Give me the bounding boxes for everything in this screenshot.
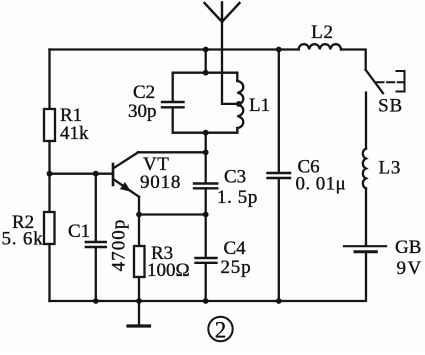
svg-text:L3: L3 [379, 158, 402, 179]
switch SB actuator bracket [397, 71, 405, 92]
svg-text:C3: C3 [224, 167, 246, 188]
ground [128, 301, 150, 326]
svg-text:L1: L1 [249, 95, 270, 116]
node emitter [136, 212, 142, 218]
wire L2 to switch [341, 50, 366, 70]
svg-text:0. 01μ: 0. 01μ [296, 174, 347, 195]
svg-text:GB: GB [395, 237, 421, 258]
svg-text:100Ω: 100Ω [147, 260, 190, 281]
node base line / C1 branch [93, 171, 99, 177]
node bottom rail / R3 ground [136, 298, 142, 304]
svg-text:41k: 41k [60, 123, 89, 144]
node bottom rail / C6 [276, 298, 282, 304]
capacitor C4 [196, 258, 217, 263]
svg-text:C2: C2 [133, 82, 155, 103]
wire L1 branch lower [236, 128, 238, 133]
inductor L2 [299, 44, 341, 49]
wire base line [50, 173, 113, 175]
wire C2 branch upper [172, 73, 174, 101]
wire tank top line [173, 72, 238, 74]
node bottom rail / C4 [203, 298, 209, 304]
node tank bottom [203, 130, 209, 136]
wire C3 bottom lead [205, 189, 207, 214]
svg-text:2: 2 [215, 318, 227, 343]
wire emitter down [138, 197, 140, 215]
wire tank bottom line [173, 132, 238, 134]
wire switch to L3 [365, 93, 367, 149]
wire C3 top lead [205, 152, 207, 182]
resistor R2 [44, 212, 55, 244]
node C3 C4 emitter [203, 212, 209, 218]
wire C6 branch upper [278, 50, 280, 173]
wire tank bottom to collector node [205, 133, 207, 153]
node left rail / base [47, 171, 53, 177]
wire R2 to bottom rail [48, 244, 50, 301]
wire C4 bottom lead [205, 264, 207, 301]
figure number circled 2 [208, 317, 232, 343]
capacitor C1 [86, 242, 106, 247]
wire C1 branch upper [95, 174, 97, 241]
wire C4 top lead [205, 215, 207, 258]
svg-text:1. 5p: 1. 5p [217, 187, 258, 208]
inductor L1 [237, 81, 243, 128]
switch SB actuator dashed link [377, 81, 405, 83]
resistor R3 [134, 246, 145, 277]
svg-text:30p: 30p [128, 101, 157, 122]
node top rail / tank feed [203, 47, 209, 53]
wire L3 to battery [365, 188, 367, 245]
svg-text:9018: 9018 [140, 172, 181, 193]
svg-text:5. 6k: 5. 6k [2, 229, 44, 250]
node top rail / C6 branch [276, 47, 282, 53]
switch SB blade [366, 70, 383, 93]
wire tank feed [205, 50, 207, 73]
wire emitter node line [139, 213, 206, 215]
inductor L3 [363, 149, 366, 189]
wire antenna lead down to L1 tap [222, 22, 239, 104]
battery GB plates [344, 245, 386, 247]
wire C6 branch lower [278, 179, 280, 301]
transistor VT collector lead [114, 152, 139, 168]
wire R1 to base node [48, 141, 50, 174]
svg-text:C4: C4 [224, 238, 247, 259]
wire C2 branch lower [172, 108, 174, 132]
wire C1 branch lower [95, 248, 97, 301]
wire emitter node to R3 [138, 215, 140, 247]
node tank top [203, 70, 209, 76]
wire L1 branch upper [236, 73, 238, 81]
antenna [205, 3, 240, 22]
svg-text:25p: 25p [221, 257, 252, 278]
capacitor C6 [268, 173, 291, 178]
capacitor C3 [194, 184, 217, 189]
wire bottom rail left segment [50, 300, 96, 302]
svg-text:C1: C1 [68, 221, 90, 242]
node bottom rail / C1 [93, 298, 99, 304]
wire top rail left segment [50, 48, 206, 50]
wire collector line [138, 151, 206, 153]
wire R3 to ground node [138, 277, 140, 301]
wire bottom rail segment C4 to R3 [139, 300, 206, 302]
svg-text:4700p: 4700p [109, 219, 130, 272]
transistor VT emitter lead with arrow [114, 180, 139, 197]
wire top rail middle segment [206, 48, 279, 50]
svg-text:9V: 9V [397, 258, 423, 279]
wire battery to bottom rail [279, 253, 366, 301]
capacitor C2 [162, 102, 184, 107]
svg-text:SB: SB [378, 96, 403, 117]
wire bottom rail segment C6 to C4 [206, 300, 279, 302]
wire top rail to L2 [279, 48, 299, 50]
resistor R1 [44, 109, 55, 141]
wire base node to R2 [48, 174, 50, 212]
node collector / C3 top [203, 149, 209, 155]
transistor VT base bar [112, 164, 115, 185]
wire left rail top (to R1) [48, 50, 50, 110]
svg-text:L2: L2 [311, 22, 334, 43]
wire bottom rail segment R3 to C1 [96, 300, 139, 302]
node L1 tap [236, 101, 242, 107]
